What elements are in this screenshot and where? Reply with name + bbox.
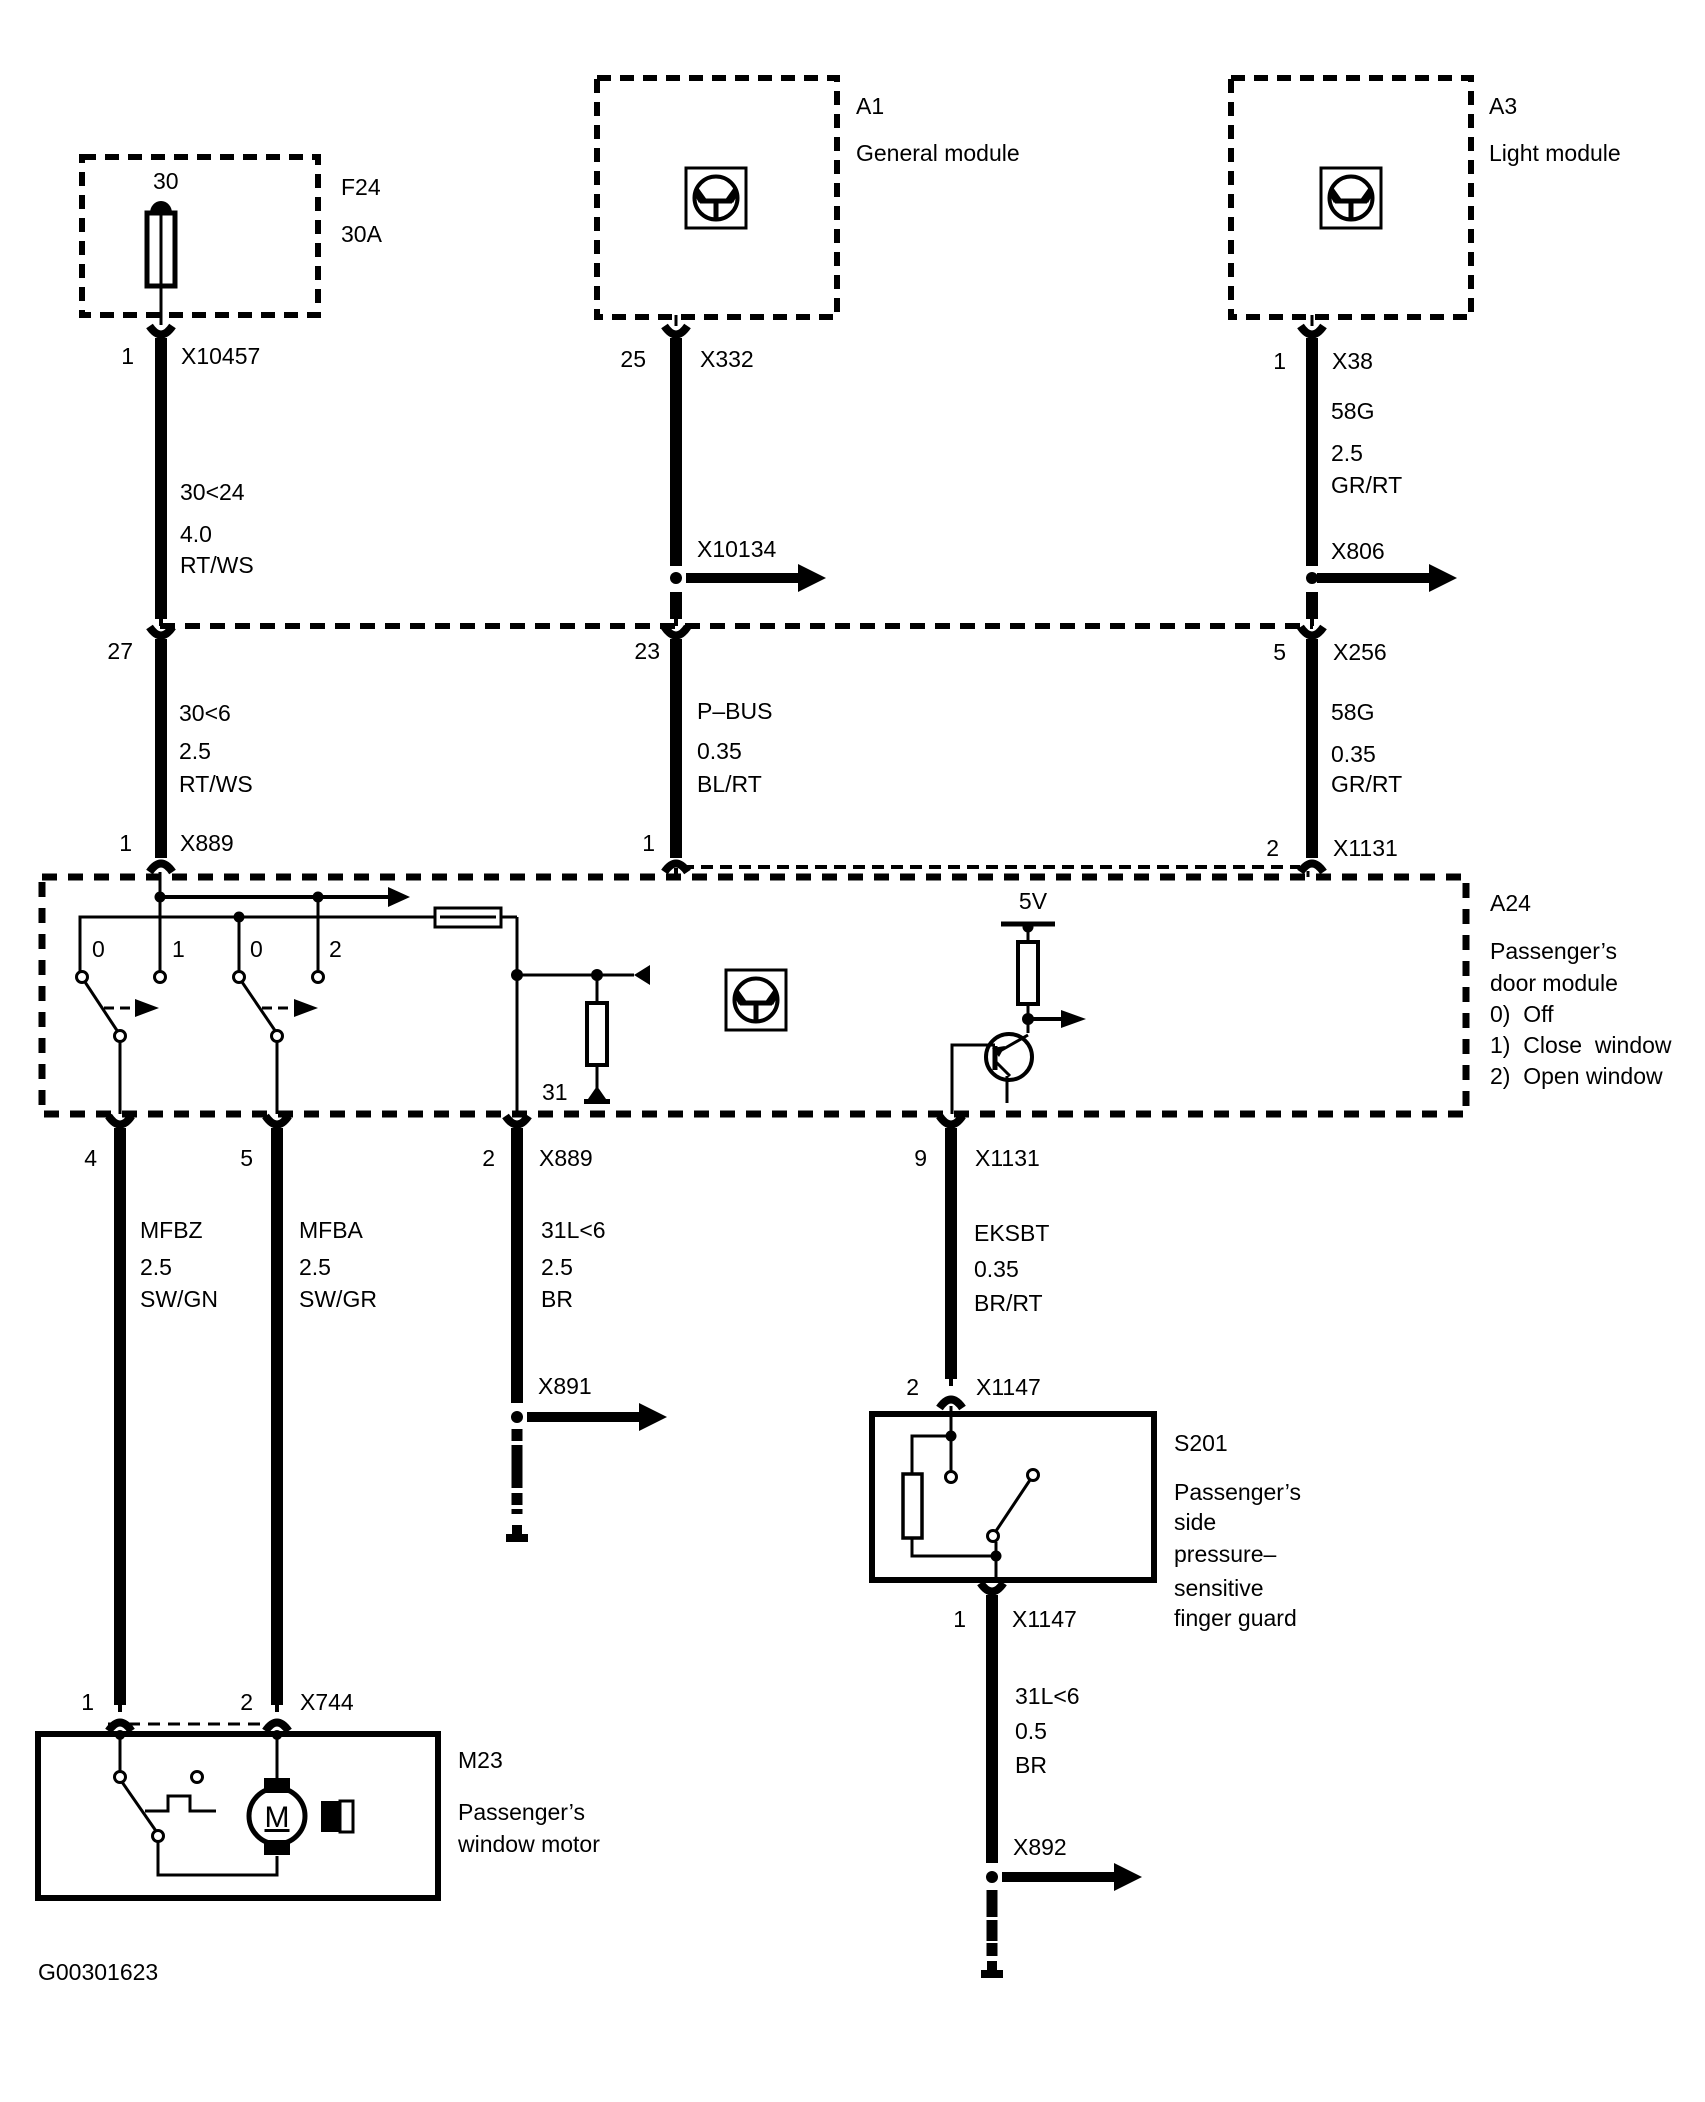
svg-text:RT/WS: RT/WS: [179, 771, 253, 797]
svg-text:BR/RT: BR/RT: [974, 1290, 1043, 1316]
svg-text:X332: X332: [700, 346, 754, 372]
svg-text:EKSBT: EKSBT: [974, 1220, 1049, 1246]
svg-text:1: 1: [953, 1606, 966, 1632]
svg-text:0: 0: [250, 936, 263, 962]
svg-text:MFBA: MFBA: [299, 1217, 364, 1243]
svg-text:1: 1: [1273, 348, 1286, 374]
svg-text:0.35: 0.35: [1331, 741, 1376, 767]
svg-text:RT/WS: RT/WS: [180, 552, 254, 578]
svg-text:BR: BR: [1015, 1752, 1047, 1778]
svg-text:2: 2: [482, 1145, 495, 1171]
svg-text:2.5: 2.5: [1331, 440, 1363, 466]
svg-text:BL/RT: BL/RT: [697, 771, 762, 797]
svg-text:sensitive: sensitive: [1174, 1575, 1263, 1601]
svg-text:0: 0: [92, 936, 105, 962]
svg-text:side: side: [1174, 1509, 1216, 1535]
svg-text:X1131: X1131: [975, 1145, 1040, 1171]
svg-text:30<6: 30<6: [179, 700, 231, 726]
svg-text:G00301623: G00301623: [38, 1959, 158, 1985]
svg-text:27: 27: [107, 638, 133, 664]
svg-text:5V: 5V: [1019, 888, 1048, 914]
svg-text:58G: 58G: [1331, 398, 1374, 424]
svg-text:F24: F24: [341, 174, 381, 200]
svg-text:X10134: X10134: [697, 536, 777, 562]
svg-text:4.0: 4.0: [180, 521, 212, 547]
svg-text:31: 31: [542, 1079, 568, 1105]
svg-text:X806: X806: [1331, 538, 1385, 564]
svg-text:General module: General module: [856, 140, 1020, 166]
svg-text:1: 1: [81, 1689, 94, 1715]
svg-text:X744: X744: [300, 1689, 354, 1715]
svg-text:finger guard: finger guard: [1174, 1605, 1297, 1631]
svg-text:SW/GN: SW/GN: [140, 1286, 218, 1312]
svg-text:Passenger’s: Passenger’s: [1490, 938, 1617, 964]
svg-text:X889: X889: [539, 1145, 593, 1171]
svg-text:pressure–: pressure–: [1174, 1541, 1276, 1567]
svg-text:2: 2: [1266, 835, 1279, 861]
svg-text:BR: BR: [541, 1286, 573, 1312]
svg-text:X1147: X1147: [976, 1374, 1041, 1400]
svg-text:2: 2: [240, 1689, 253, 1715]
svg-text:X889: X889: [180, 830, 234, 856]
svg-text:X10457: X10457: [181, 343, 260, 369]
svg-text:0.35: 0.35: [697, 738, 742, 764]
svg-text:SW/GR: SW/GR: [299, 1286, 377, 1312]
svg-text:GR/RT: GR/RT: [1331, 771, 1402, 797]
svg-text:25: 25: [620, 346, 646, 372]
svg-text:X891: X891: [538, 1373, 592, 1399]
svg-text:30<24: 30<24: [180, 479, 245, 505]
svg-text:X892: X892: [1013, 1834, 1067, 1860]
svg-text:M: M: [265, 1801, 290, 1834]
svg-text:31L<6: 31L<6: [541, 1217, 606, 1243]
svg-text:2) Open window: 2) Open window: [1490, 1063, 1663, 1089]
svg-text:5: 5: [1273, 639, 1286, 665]
svg-text:0) Off: 0) Off: [1490, 1001, 1554, 1027]
svg-text:23: 23: [634, 638, 660, 664]
svg-text:9: 9: [914, 1145, 927, 1171]
svg-text:2: 2: [329, 936, 342, 962]
svg-text:A3: A3: [1489, 93, 1517, 119]
svg-text:4: 4: [84, 1145, 97, 1171]
svg-text:30A: 30A: [341, 221, 383, 247]
svg-text:door module: door module: [1490, 970, 1618, 996]
svg-text:MFBZ: MFBZ: [140, 1217, 203, 1243]
svg-text:1: 1: [172, 936, 185, 962]
svg-text:2.5: 2.5: [179, 738, 211, 764]
svg-text:M23: M23: [458, 1747, 503, 1773]
svg-text:S201: S201: [1174, 1430, 1228, 1456]
svg-text:5: 5: [240, 1145, 253, 1171]
svg-text:0.5: 0.5: [1015, 1718, 1047, 1744]
svg-text:Light module: Light module: [1489, 140, 1621, 166]
svg-text:A24: A24: [1490, 890, 1531, 916]
svg-text:X256: X256: [1333, 639, 1387, 665]
svg-text:58G: 58G: [1331, 699, 1374, 725]
svg-text:30: 30: [153, 168, 179, 194]
svg-text:1: 1: [119, 830, 132, 856]
svg-text:2: 2: [906, 1374, 919, 1400]
svg-text:1: 1: [642, 830, 655, 856]
svg-text:GR/RT: GR/RT: [1331, 472, 1402, 498]
svg-text:X38: X38: [1332, 348, 1373, 374]
svg-text:A1: A1: [856, 93, 884, 119]
svg-text:31L<6: 31L<6: [1015, 1683, 1080, 1709]
svg-text:1) Close window: 1) Close window: [1490, 1032, 1672, 1058]
svg-text:2.5: 2.5: [541, 1254, 573, 1280]
svg-text:X1131: X1131: [1333, 835, 1398, 861]
svg-text:P–BUS: P–BUS: [697, 698, 772, 724]
svg-text:0.35: 0.35: [974, 1256, 1019, 1282]
svg-text:Passenger’s: Passenger’s: [1174, 1479, 1301, 1505]
svg-text:X1147: X1147: [1012, 1606, 1077, 1632]
svg-text:window motor: window motor: [457, 1831, 600, 1857]
svg-text:1: 1: [121, 343, 134, 369]
svg-text:Passenger’s: Passenger’s: [458, 1799, 585, 1825]
svg-text:2.5: 2.5: [299, 1254, 331, 1280]
svg-text:2.5: 2.5: [140, 1254, 172, 1280]
